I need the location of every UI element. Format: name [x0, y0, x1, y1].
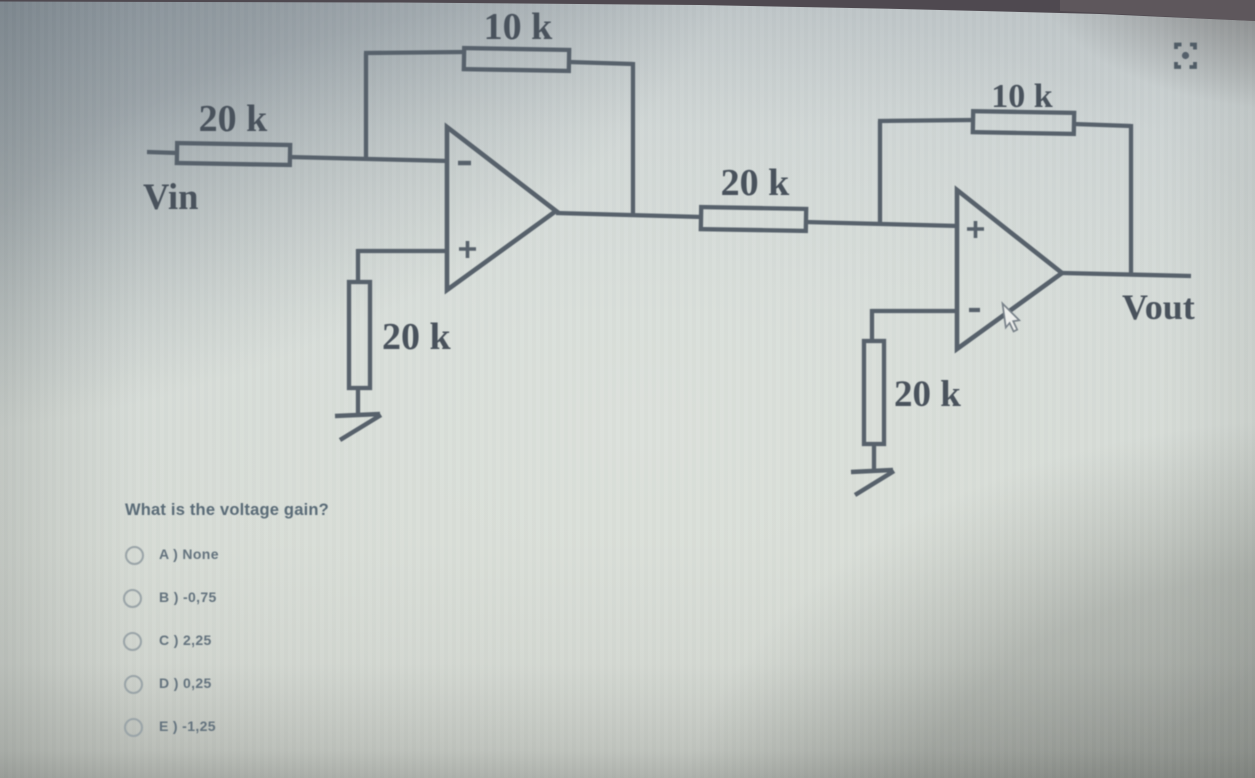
- resistor R3 20k to ground (stage 1): [349, 282, 370, 388]
- wire: U2 inverting input horizontal: [871, 309, 959, 313]
- wire: U2 feedback left vertical: [878, 121, 882, 225]
- resistor R6 20k to ground (stage 2): [864, 341, 884, 444]
- wire: R4 to non-inverting input of U2: [805, 222, 959, 226]
- wire: Vin input stub: [147, 152, 178, 153]
- svg-text:10 k: 10 k: [484, 6, 554, 48]
- wire: R2 to right vertical: [569, 62, 633, 64]
- wire: R5 to right vertical: [1074, 124, 1131, 126]
- svg-text:20 k: 20 k: [721, 162, 791, 204]
- wire: down to R3: [356, 249, 360, 283]
- wire: U2 output to Vout: [1062, 273, 1191, 276]
- wire: down to R6: [870, 309, 874, 342]
- svg-text:20 k: 20 k: [199, 98, 269, 140]
- top bezel dark band: [0, 0, 1255, 40]
- ground symbol (stage 1): [335, 414, 381, 440]
- wire: U1 output to R4: [556, 213, 702, 217]
- label U1 non-inverting + sign: [459, 241, 476, 258]
- svg-text:Vin: Vin: [143, 176, 198, 217]
- question: What is the voltage gain?: [125, 501, 329, 520]
- radio option A: [125, 546, 144, 565]
- svg-text:20 k: 20 k: [894, 374, 961, 415]
- wire: feedback left vertical (node at inverting input): [364, 53, 368, 160]
- ground symbol (stage 2): [851, 470, 894, 495]
- radio option E: [124, 718, 143, 737]
- radio option C: [123, 632, 142, 651]
- label U1 inverting - sign: [458, 161, 471, 166]
- mouse cursor near U2: [1003, 304, 1020, 332]
- resistor R5 10k feedback (stage 2): [973, 111, 1074, 134]
- radio option B: [123, 589, 142, 608]
- fullscreen/scan icon top right: [1176, 45, 1195, 68]
- wire: feedback top horizontal to R2: [364, 52, 465, 53]
- svg-text:Vout: Vout: [1122, 287, 1195, 327]
- op-amp U1: [447, 127, 556, 290]
- wire: feedback right vertical down to U2 output: [1129, 124, 1133, 276]
- wire: U2 feedback top horizontal: [878, 120, 974, 121]
- svg-text:10 k: 10 k: [991, 78, 1053, 115]
- wire: feedback right vertical down to U1 output: [631, 62, 635, 216]
- resistor R4 20k series (between stages): [701, 207, 806, 231]
- label U2 non-inverting + sign: [967, 221, 984, 238]
- wire: R1 to inverting input of U1: [289, 157, 449, 161]
- label U2 inverting - sign: [969, 308, 980, 312]
- resistor R1 20k input (stage 1): [177, 143, 290, 165]
- op-amp U2: [957, 190, 1062, 349]
- svg-text:20 k: 20 k: [382, 316, 452, 358]
- wire: R3 to ground: [356, 388, 360, 416]
- radio option D: [124, 675, 143, 694]
- wire: R6 to ground: [872, 444, 876, 471]
- resistor R2 10k feedback (stage 1): [464, 48, 569, 71]
- wire: non-inverting input of U1: [357, 249, 449, 253]
